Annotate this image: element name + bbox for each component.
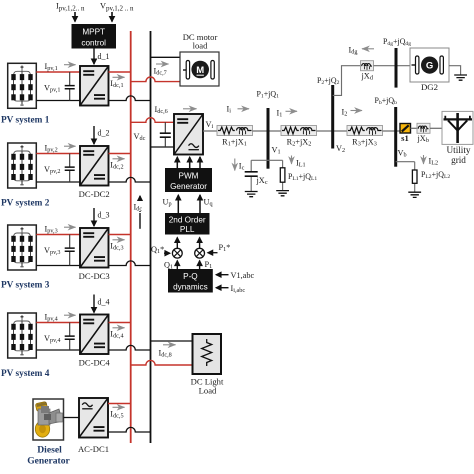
wire: black bus to DC light load <box>151 340 193 342</box>
wire: DC-DC3 return (black) hop over red bus to black bus <box>109 261 151 266</box>
inductor jXb <box>417 123 430 133</box>
svg-text:s1: s1 <box>401 133 409 143</box>
converter DC-DC1 <box>80 66 109 106</box>
resistor load PL2+jQL2 <box>412 170 417 183</box>
svg-text:Generator: Generator <box>27 456 70 467</box>
wire: R3 to bus Vb <box>383 130 401 132</box>
wire: d_3 duty cycle arrow into DC-DC3 <box>93 208 95 226</box>
svg-text:Utility: Utility <box>447 145 471 155</box>
wire: black bus to DC motor load <box>151 56 181 58</box>
label Idc,3 with arrow <box>113 239 125 241</box>
svg-text:Diesel: Diesel <box>37 445 62 456</box>
wire: jXb to utility grid <box>430 127 442 129</box>
wire: PV3 positive (red) panel to DC-DC3 <box>36 234 80 236</box>
node: bus V1 <box>267 108 270 169</box>
wire: P-Q dynamics to left mixer <box>176 261 178 269</box>
svg-text:DC-DC4: DC-DC4 <box>79 358 111 368</box>
wire: DC-DC1 return (black) hop over red bus to black bus <box>109 96 151 101</box>
impedance R2+jX2 <box>281 126 317 136</box>
svg-text:MPPT: MPPT <box>82 28 105 37</box>
svg-text:dynamics: dynamics <box>173 283 208 292</box>
capacitor Vpv,1 input cap <box>69 72 71 101</box>
svg-text:Ipv,1,2.. n: Ipv,1,2.. n <box>56 2 85 13</box>
wire: V1,abc input arrow <box>216 274 229 276</box>
wire: left mixer to PLL <box>176 238 178 249</box>
wire: Idc,3 output (red) to red bus <box>109 234 131 236</box>
controller PWM Generator <box>165 168 212 192</box>
wire: Uq arrow PLL to PWM <box>199 195 201 213</box>
svg-text:M: M <box>196 65 204 76</box>
ground below jXc <box>245 192 258 197</box>
node: bus Pdg <box>395 48 398 88</box>
capacitor Vpv,4 input cap <box>69 323 71 351</box>
wire: Idc,4 output (red) to red bus <box>109 322 131 324</box>
wire: DC-DC4 return (black) hop over red bus to black bus <box>109 345 151 350</box>
converter AC-DC1 <box>79 398 108 438</box>
label IL1 with arrow <box>291 156 293 165</box>
svg-text:DC-DC3: DC-DC3 <box>79 271 110 281</box>
wire: red bus hop over black bus to DC light load <box>131 360 193 365</box>
wire: Vb load branch <box>396 162 415 193</box>
wire: PV4 positive (red) panel to DC-DC4 <box>36 322 80 324</box>
switch s1 <box>400 124 411 134</box>
wire: PV1 positive (red) panel to DC-DC1 <box>36 71 80 73</box>
svg-text:load: load <box>193 41 208 51</box>
wire: Ipv input arrow to MPPT <box>74 12 76 22</box>
wire: PV2 positive (red) panel to DC-DC2 <box>36 153 80 155</box>
wire: Up arrow PLL to PWM <box>177 195 179 213</box>
label Idc,8 with arrow <box>163 344 176 346</box>
diesel generator image <box>33 399 64 440</box>
utility grid icon (transmission tower) <box>442 111 473 144</box>
svg-text:PWM: PWM <box>178 172 198 181</box>
summing junction Q1 <box>172 248 182 258</box>
svg-text:V1,abc: V1,abc <box>231 271 255 280</box>
wire: s1 to jXb <box>411 127 418 129</box>
svg-text:P2+jQ2: P2+jQ2 <box>317 76 340 86</box>
wire: d_1 duty cycle from MPPT to DC-DC1 <box>93 49 95 65</box>
wire: jXd to DG2 <box>374 65 411 67</box>
wire: PV3 negative (black) panel to DC-DC3 <box>36 265 80 267</box>
wire: right mixer to PLL <box>199 238 201 249</box>
wire: P-Q dynamics to right mixer <box>199 261 201 269</box>
wire: R1 to bus V1 <box>253 130 282 132</box>
label Idc bus current with arrow <box>139 213 141 229</box>
wire: V2 to jXd <box>333 66 361 96</box>
svg-text:DC-DC2: DC-DC2 <box>79 189 110 199</box>
inverter U1 (DC-AC) <box>174 114 203 155</box>
svg-text:PLL: PLL <box>180 225 195 234</box>
wire: R2 to bus V2 <box>317 130 348 132</box>
node: bus Vb <box>394 107 397 167</box>
converter DC-DC3 <box>80 228 109 268</box>
impedance R1+jX1 <box>217 126 253 136</box>
wire: red bus hop over black bus to inverter (DC link +) <box>131 118 174 123</box>
generator DG2 icon <box>410 48 449 82</box>
wire: PV4 negative (black) panel to DC-DC4 <box>36 349 80 351</box>
wire: Idc,1 output (red) to red bus <box>109 71 131 73</box>
wire: inverter AC output Vi <box>203 130 217 132</box>
svg-text:P1+jQ1: P1+jQ1 <box>257 90 280 100</box>
resistor load PL1+jQL1 <box>282 160 284 190</box>
controller P-Q dynamics <box>168 269 213 293</box>
wire: PV1 negative (black) panel to DC-DC1 <box>36 100 80 102</box>
PV array panel 3 <box>8 225 37 270</box>
wire: Vpv input arrow to MPPT <box>111 12 113 22</box>
ground at DG2 <box>454 75 467 80</box>
wire: DG2 to ground <box>449 66 461 75</box>
svg-text:grid: grid <box>451 155 466 165</box>
svg-text:control: control <box>81 39 106 48</box>
label Idc,1 with arrow <box>113 76 125 78</box>
svg-text:d_4: d_4 <box>98 298 110 307</box>
svg-text:AC-DC1: AC-DC1 <box>78 444 109 454</box>
summing junction P1 <box>195 248 205 258</box>
capacitor jXc <box>245 172 258 176</box>
label IL2 with arrow <box>423 155 425 164</box>
node: bus V2 <box>331 85 334 149</box>
node: red DC bus <box>130 31 132 443</box>
wire: black bus to inverter (DC link -) <box>151 146 175 148</box>
label Idc,2 with arrow <box>113 158 125 160</box>
converter DC-DC4 <box>80 315 109 355</box>
PV array panel 2 <box>8 143 37 188</box>
wire: Idc,2 output (red) to red bus <box>109 153 131 155</box>
svg-text:d_1: d_1 <box>98 52 110 61</box>
wire: PV2 negative (black) panel to DC-DC2 <box>36 181 80 183</box>
svg-text:PV system 1: PV system 1 <box>1 116 50 126</box>
converter DC-DC2 <box>80 146 109 186</box>
node: black DC bus <box>150 31 152 443</box>
svg-text:DG2: DG2 <box>421 82 438 92</box>
svg-text:Pb+jQb: Pb+jQb <box>375 96 398 106</box>
svg-text:d_2: d_2 <box>98 129 110 138</box>
ground below PL2 <box>408 192 421 197</box>
resistor DC light load <box>193 334 222 374</box>
wire: diesel generator to AC-DC1 <box>64 417 80 419</box>
wire: Ii,abc input arrow <box>216 287 229 289</box>
svg-text:PV system 4: PV system 4 <box>1 369 50 379</box>
label Idc,4 with arrow <box>113 327 125 329</box>
inductor jXd <box>361 61 374 71</box>
svg-text:PV system 3: PV system 3 <box>1 281 50 291</box>
svg-text:Generator: Generator <box>170 182 207 191</box>
label Ic with arrow <box>234 159 236 171</box>
PV array panel 4 <box>8 313 37 358</box>
svg-text:PV system 2: PV system 2 <box>1 199 50 209</box>
ground below PL1 <box>276 191 289 196</box>
svg-text:Vpv,1,2 .. n: Vpv,1,2 .. n <box>100 2 134 13</box>
label Idc,5 with arrow <box>113 406 125 408</box>
wire: AC-DC1 return (black) hop over red bus to black bus <box>108 427 151 432</box>
svg-text:R3+jX3: R3+jX3 <box>352 138 377 148</box>
svg-text:Load: Load <box>199 386 217 396</box>
svg-text:d_3: d_3 <box>98 211 110 220</box>
svg-text:R2+jX2: R2+jX2 <box>287 138 312 148</box>
wire: DC-DC2 return (black) hop over red bus to black bus <box>109 177 151 182</box>
PV array panel 1 <box>8 63 37 108</box>
capacitor Vpv,3 input cap <box>69 235 71 266</box>
svg-text:G: G <box>426 60 433 71</box>
motor M icon (DC motor load) <box>180 52 219 86</box>
wire: d_4 duty cycle arrow into DC-DC4 <box>93 295 95 313</box>
wire: Idc,5 output (red) to red bus <box>108 403 131 405</box>
wire: d_2 duty cycle arrow into DC-DC2 <box>93 126 95 144</box>
wire: V1 load branch <box>251 159 282 161</box>
controller 2nd Order PLL <box>165 213 210 235</box>
svg-text:2nd Order: 2nd Order <box>169 216 206 225</box>
svg-text:P-Q: P-Q <box>183 272 198 281</box>
label Idc,7 with arrow <box>156 63 169 65</box>
impedance R3+jX3 <box>347 126 383 136</box>
controller MPPT control <box>72 24 117 49</box>
capacitor DC link <box>164 122 166 147</box>
wire: red bus hop over black bus to DC motor load <box>131 77 180 82</box>
wire: PWM gate signals to inverter (3 arrows) <box>176 157 178 168</box>
svg-text:R1+jX1: R1+jX1 <box>222 138 247 148</box>
capacitor Vpv,2 input cap <box>69 154 71 183</box>
